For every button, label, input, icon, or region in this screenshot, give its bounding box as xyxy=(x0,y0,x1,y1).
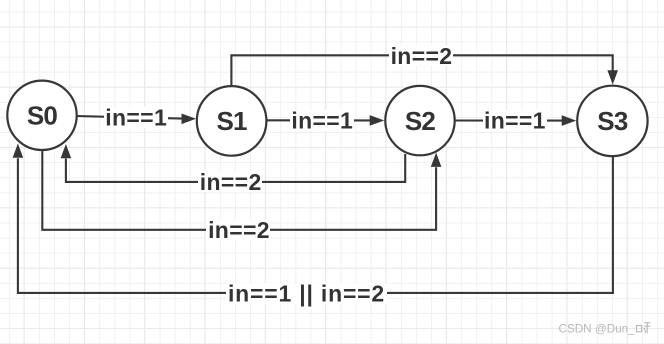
transition wire S1->S3 (top, in==2) xyxy=(231,55,618,86)
svg-text:S1: S1 xyxy=(216,106,247,136)
svg-text:CSDN @Dun_: CSDN @Dun_ xyxy=(559,322,636,335)
svg-text:in==1 || in==2: in==1 || in==2 xyxy=(228,280,385,306)
svg-text:in==1: in==1 xyxy=(105,105,167,131)
transition wire S1->S2 xyxy=(266,115,384,126)
transition wire S2->S3 xyxy=(455,115,577,126)
state S1 xyxy=(197,86,267,156)
state S3 xyxy=(577,86,647,156)
label in==1 || in==2 xyxy=(226,280,387,306)
state S0 xyxy=(7,81,76,150)
svg-text:in==2: in==2 xyxy=(200,169,262,195)
transition wire S0->S2 (in==2) xyxy=(42,150,441,230)
svg-text:in==2: in==2 xyxy=(208,217,270,243)
svg-text:S0: S0 xyxy=(27,101,58,131)
transition wire S3->S0 (in==1 || in==2) xyxy=(13,144,613,293)
label in==2 (top) xyxy=(389,43,453,69)
svg-text:S3: S3 xyxy=(597,106,628,136)
label in==1 (S0->S1) xyxy=(104,105,168,131)
svg-text:in==1: in==1 xyxy=(291,107,353,133)
label in==1 (S1->S2) xyxy=(290,107,354,133)
label in==2 (S2->S0) xyxy=(198,169,262,195)
svg-text:in==1: in==1 xyxy=(484,108,546,134)
transition wire S2->S0 (in==2) xyxy=(61,144,406,182)
svg-text:in==2: in==2 xyxy=(391,43,453,69)
transition wire S0->S1 xyxy=(77,114,196,125)
label in==2 (S0->S2) xyxy=(206,217,270,243)
svg-text:S2: S2 xyxy=(405,106,436,136)
label in==1 (S2->S3) xyxy=(483,108,547,134)
state S2 xyxy=(385,86,454,155)
watermark CSDN @Dun_ya xyxy=(559,322,651,335)
